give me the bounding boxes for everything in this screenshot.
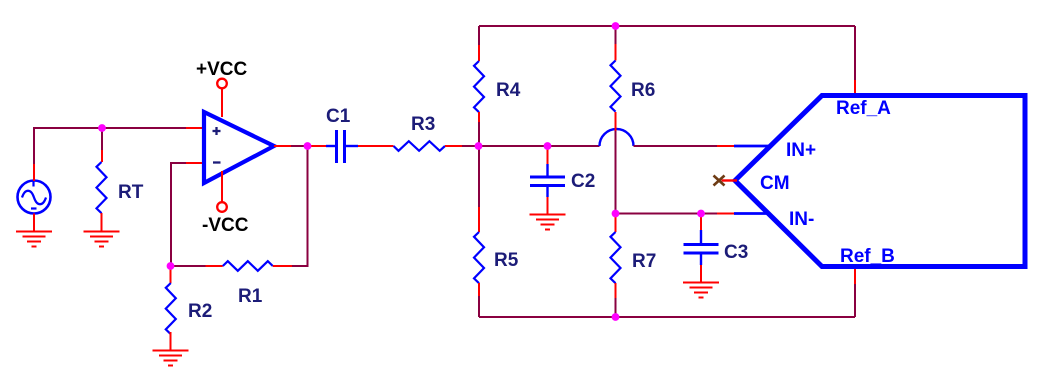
no-connect X: [714, 176, 725, 186]
svg-text:+VCC: +VCC: [196, 59, 247, 80]
resistor R6: [611, 26, 656, 214]
power +VCC terminal: [217, 79, 227, 89]
svg-text:C1: C1: [326, 106, 351, 127]
node bottom rail junction: [612, 313, 620, 321]
svg-text:R7: R7: [632, 251, 656, 272]
svg-text:CM: CM: [760, 173, 790, 194]
svg-text:R1: R1: [238, 286, 263, 307]
svg-text:Ref_B: Ref_B: [840, 246, 895, 267]
node IN- junction: [612, 210, 620, 218]
resistor R3: [394, 114, 480, 151]
resistor R7: [611, 214, 657, 318]
wire feedback to output: [292, 146, 308, 266]
pin IN- stub: [734, 212, 769, 215]
wire input net: [34, 128, 186, 164]
wire Ref_A lead: [854, 80, 856, 93]
power -VCC terminal: [217, 202, 227, 212]
op-amp U1: [204, 112, 274, 183]
voltage source V1: [18, 164, 51, 231]
wire output net: [291, 145, 308, 147]
ground (RT): [84, 232, 120, 247]
capacitor C3: [684, 214, 749, 283]
wire -VCC pin: [221, 171, 223, 203]
wire output lead: [274, 145, 291, 147]
wire +VCC pin: [221, 88, 223, 117]
svg-text:Ref_A: Ref_A: [836, 98, 891, 119]
wire - input net: [171, 163, 186, 266]
wire Ref_B lead: [854, 268, 856, 284]
svg-text:RT: RT: [118, 182, 144, 203]
svg-text:-VCC: -VCC: [202, 215, 249, 236]
pin label - input: [213, 161, 221, 163]
svg-text:IN-: IN-: [789, 209, 814, 230]
wire mid net right: [634, 145, 718, 147]
resistor R1: [171, 261, 292, 307]
node output junction: [304, 142, 312, 150]
svg-text:R2: R2: [188, 301, 212, 322]
svg-text:R3: R3: [411, 114, 435, 135]
wire IN+ lead: [717, 145, 734, 147]
node top rail junction: [612, 22, 620, 30]
ground (C3): [683, 283, 719, 298]
wire IN- net: [616, 213, 718, 215]
capacitor C1: [307, 106, 394, 163]
node R3 junction: [475, 142, 483, 150]
svg-text:R6: R6: [631, 80, 655, 101]
capacitor C2: [530, 146, 595, 214]
svg-text:IN+: IN+: [786, 140, 816, 161]
pin CM stub: [722, 179, 738, 181]
node input junction: [98, 124, 106, 132]
resistor R4: [474, 26, 521, 146]
wire mid net: [479, 145, 600, 147]
ground (C2): [530, 215, 566, 230]
ground (R2): [153, 351, 189, 366]
wire hop over R6 rail: [600, 129, 634, 146]
wire top rail: [479, 25, 855, 27]
svg-text:R4: R4: [496, 80, 521, 101]
node feedback junction: [167, 262, 175, 270]
svg-text:R5: R5: [494, 250, 519, 271]
svg-text:C3: C3: [724, 242, 748, 263]
node C3 junction: [697, 210, 705, 218]
ground (source): [16, 232, 52, 247]
wire + pin lead: [186, 127, 202, 129]
wire IN- lead: [717, 213, 734, 215]
amplifier U2: [735, 96, 1025, 268]
wire Ref_B net: [854, 284, 856, 317]
wire bottom rail: [479, 316, 855, 318]
resistor R2: [166, 266, 212, 350]
resistor R5: [474, 146, 519, 317]
svg-text:C2: C2: [571, 171, 595, 192]
resistor RT: [97, 128, 144, 231]
node C2 junction: [544, 142, 552, 150]
pin IN+ stub: [734, 145, 770, 148]
wire Ref_A net: [854, 26, 856, 80]
pin label + input: [213, 130, 221, 132]
wire - pin lead: [186, 162, 202, 164]
